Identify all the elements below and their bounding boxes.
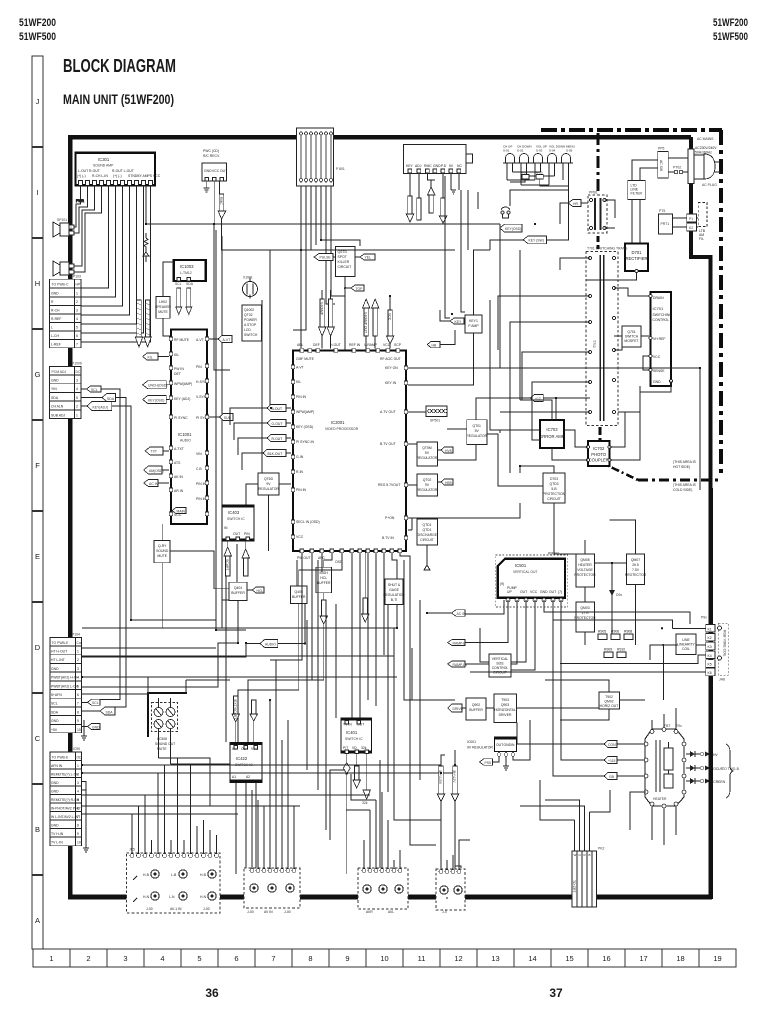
svg-text:GND: GND (92, 725, 100, 729)
svg-text:REMOTE(?) L-CH: REMOTE(?) L-CH (51, 773, 79, 777)
buffer Q902 (466, 698, 486, 720)
svg-text:7: 7 (77, 815, 79, 819)
svg-text:GB: GB (609, 775, 615, 779)
wire bundle left of VP down (214, 224, 270, 742)
flag MAIN near IC1001 bottom (172, 508, 186, 514)
svg-text:RAMP-B: RAMP-B (453, 641, 467, 645)
svg-text:MUTE: MUTE (157, 554, 167, 558)
svg-text:HB9: HB9 (445, 481, 452, 485)
svg-text:PHOTO: PHOTO (591, 452, 607, 457)
svg-text:OUT: OUT (520, 590, 527, 594)
svg-text:SWITCH IC: SWITCH IC (345, 737, 363, 741)
svg-text:Q-RY: Q-RY (158, 544, 167, 548)
wires into PK02 (520, 780, 610, 851)
svg-text:2: 2 (76, 300, 78, 304)
wire remocon bus right (222, 219, 521, 430)
svg-text:IC1001: IC1001 (178, 432, 192, 437)
wires VP bottom pins down (299, 553, 410, 718)
wire arrow stubs to VP top (322, 290, 390, 349)
flag SDA at PCM ADJ (81, 394, 116, 402)
MAIN PCB thick outline (68, 137, 712, 899)
svg-text:4: 4 (160, 954, 164, 963)
flag +115 (568, 757, 645, 764)
svg-text:TOP: TOP (356, 287, 364, 291)
hatched arrows up to IC601 (B+ lines) (437, 766, 458, 802)
svg-text:NC: NC (457, 164, 462, 168)
svg-text:7: 7 (271, 954, 275, 963)
svg-text:CIRCUIT: CIRCUIT (547, 497, 561, 501)
svg-text:5+AFN: 5+AFN (51, 693, 62, 697)
svg-text:BUFFER: BUFFER (469, 708, 483, 712)
svg-text:HR: HR (573, 202, 578, 206)
flag SUB right of IC1001 (209, 414, 233, 421)
svg-text:VCC: VCC (388, 313, 392, 321)
svg-text:2: 2 (77, 658, 79, 662)
svg-text:TO PWB-C: TO PWB-C (52, 283, 69, 287)
svg-text:L: L (51, 326, 53, 330)
svg-text:3: 3 (76, 379, 78, 383)
svg-text:26.5: 26.5 (632, 563, 639, 567)
svg-text:P1: P1 (689, 217, 693, 221)
svg-text:IC2001: IC2001 (331, 420, 345, 425)
svg-text:HCL: HCL (257, 589, 264, 593)
svg-text:MUTE: MUTE (158, 310, 168, 314)
svg-text:9: 9 (77, 719, 79, 723)
svg-text:36: 36 (205, 986, 219, 1000)
svg-text:7.5V: 7.5V (632, 568, 640, 572)
svg-text:LCD: LCD (244, 328, 251, 332)
svg-text:PIN: PIN (196, 365, 202, 369)
transformer T701 (588, 191, 607, 234)
svg-text:QTD3: QTD3 (549, 482, 558, 486)
svg-text:SWITCHING: SWITCHING (653, 313, 673, 317)
svg-text:16: 16 (602, 954, 610, 963)
svg-text:IC401: IC401 (346, 730, 358, 735)
svg-text:KEY: KEY (406, 164, 414, 168)
svg-text:SDA: SDA (107, 397, 115, 401)
wire PRT1 to terminals (673, 218, 687, 227)
grid ruler bottom numbers (49, 954, 721, 963)
svg-text:PP5: PP5 (658, 147, 665, 151)
sound amp IC301 (76, 153, 161, 186)
svg-text:10: 10 (77, 841, 81, 845)
svg-text:3: 3 (123, 954, 127, 963)
IC701 switching control (649, 292, 673, 386)
svg-text:L-N: L-N (169, 895, 175, 899)
svg-text:IC422: IC422 (236, 756, 248, 761)
connector P104 TO PWB-D (50, 633, 82, 733)
svg-text:14: 14 (528, 954, 536, 963)
svg-text:OUT: OUT (233, 532, 240, 536)
extra verticals right of center (412, 600, 420, 780)
svg-text:RMC: RMC (219, 197, 223, 205)
flag RAMP-UP (448, 600, 508, 646)
svg-text:5V: 5V (449, 164, 454, 168)
svg-text:KIL: KIL (296, 380, 301, 384)
svg-text:LINE: LINE (682, 638, 690, 642)
wires FBT left side (630, 708, 676, 845)
svg-text:AC IN: AC IN (149, 482, 159, 486)
svg-text:V-RAMP OUT: V-RAMP OUT (364, 312, 368, 333)
switch IC422 (230, 742, 262, 782)
svg-text:J-00: J-00 (284, 910, 291, 914)
svg-text:GND: GND (204, 169, 212, 173)
posistor PRT701 (659, 209, 673, 234)
wire IR VCC down (213, 181, 215, 224)
svg-text:PRT1: PRT1 (661, 222, 670, 226)
flag HV5 (438, 447, 454, 453)
vertical out dashed outline (496, 555, 568, 607)
svg-text:MAIN: MAIN (177, 509, 186, 513)
svg-text:10: 10 (77, 728, 81, 732)
svg-text:P104: P104 (72, 633, 80, 637)
REMOCON arrow down (218, 181, 226, 219)
flag HR into T701 (568, 200, 588, 207)
fuse PT02 on lower wire (668, 166, 688, 174)
svg-text:SDA: SDA (106, 710, 114, 714)
extra center verticals (297, 560, 380, 868)
svg-text:BUFFER: BUFFER (292, 595, 306, 599)
headphone jack symbol (501, 207, 510, 218)
svg-text:AV-1 IN: AV-1 IN (170, 907, 182, 911)
grid ruler left column (32, 56, 43, 949)
svg-text:Q903: Q903 (501, 703, 509, 707)
svg-text:HV5: HV5 (445, 449, 452, 453)
svg-text:32k: 32k (362, 801, 368, 805)
svg-text:6: 6 (77, 807, 79, 811)
svg-text:AC230V/240V: AC230V/240V (695, 146, 717, 150)
svg-text:OUT: OUT (496, 743, 503, 747)
svg-text:CMF MUTE: CMF MUTE (296, 357, 315, 361)
svg-text:WPW(AMP): WPW(AMP) (174, 382, 192, 386)
svg-text:HEATER: HEATER (653, 797, 667, 801)
wires linearity/connector (470, 600, 706, 700)
svg-text:37: 37 (549, 986, 563, 1000)
svg-text:DISCHARGE: DISCHARGE (417, 533, 438, 537)
svg-text:OUT: OUT (549, 590, 556, 594)
svg-text:YEL: YEL (365, 256, 372, 260)
svg-text:TO TWG-B: TO TWG-B (722, 767, 740, 771)
svg-text:W: W (574, 853, 577, 857)
svg-text:C: C (35, 734, 41, 743)
svg-text:51WF500: 51WF500 (19, 31, 56, 43)
svg-text:K2: K2 (708, 636, 712, 640)
svg-text:11: 11 (418, 954, 426, 963)
bracket TO CRT (722, 744, 740, 798)
protection circuit D703 (543, 473, 566, 503)
svg-text:R/C RECV.: R/C RECV. (203, 154, 220, 158)
svg-text:S-03: S-03 (536, 149, 543, 153)
svg-text:13: 13 (491, 954, 499, 963)
main border right step (solid) (691, 137, 711, 490)
svg-text:B: B (589, 853, 591, 857)
svg-text:IC702: IC702 (593, 446, 605, 451)
svg-text:DRIVER: DRIVER (499, 713, 512, 717)
flag HB9 (438, 479, 454, 485)
svg-text:IC703: IC703 (546, 427, 558, 432)
flag AM(OSD) (144, 466, 169, 474)
svg-text:HT L-INT: HT L-INT (51, 658, 65, 662)
FBT T901 (644, 724, 686, 808)
svg-text:SCART: SCART (225, 559, 229, 570)
svg-text:H-B: H-B (143, 873, 150, 877)
svg-text:GND: GND (433, 164, 441, 168)
svg-text:S-04: S-04 (549, 149, 556, 153)
svg-text:PIN IN: PIN IN (296, 395, 307, 399)
svg-text:PIN: PIN (244, 532, 250, 536)
svg-text:PWBT(AV2) L-CH: PWBT(AV2) L-CH (51, 684, 79, 688)
horizontal driver T903 (494, 694, 517, 722)
svg-text:UP: UP (507, 590, 512, 594)
svg-text:P AMP: P AMP (468, 324, 479, 328)
svg-text:1: 1 (77, 764, 79, 768)
svg-text:AC SW: AC SW (659, 160, 663, 172)
svg-text:QSTD: QSTD (338, 250, 348, 254)
svg-text:R909: R909 (604, 648, 612, 652)
hatched arrows above IC422 (232, 696, 258, 722)
svg-text:BIGH: BIGH (320, 571, 329, 575)
svg-text:KEY (OSD): KEY (OSD) (296, 425, 313, 429)
svg-text:S-01: S-01 (503, 149, 510, 153)
svg-text:REGULATION: REGULATION (383, 593, 405, 597)
svg-text:AC PLUG: AC PLUG (702, 183, 717, 187)
svg-text:+: + (70, 226, 72, 230)
label AC230V/240V 50Hz/60Hz (695, 146, 717, 155)
svg-text:IC001: IC001 (467, 740, 476, 744)
center vertical bus pair (388, 560, 455, 845)
svg-text:D: D (35, 643, 41, 652)
svg-text:Q1002: Q1002 (244, 308, 254, 312)
wire filter to AC SW (632, 160, 658, 180)
svg-text:BUFFER: BUFFER (231, 591, 245, 595)
svg-text:A STOP: A STOP (244, 323, 257, 327)
svg-text:ERROR AMP: ERROR AMP (539, 434, 564, 439)
AC inlet connector (688, 149, 694, 184)
wires jack group1 up-fan (82, 758, 217, 853)
svg-text:PWR: PWR (76, 199, 84, 203)
wires group JK503 up (346, 774, 400, 868)
svg-text:(THIS AREA IS: (THIS AREA IS (673, 483, 697, 487)
discharge circuit QTD1 (417, 519, 438, 545)
svg-text:D9x: D9x (616, 593, 622, 597)
wires photo coupler / error amp (500, 386, 640, 473)
svg-text:QT01: QT01 (472, 424, 481, 428)
ground key connector (451, 190, 456, 194)
protector QM03 (574, 602, 596, 632)
svg-text:PW IN: PW IN (174, 367, 184, 371)
svg-text:1: 1 (76, 292, 78, 296)
svg-text:(+) (-): (+) (-) (113, 174, 122, 178)
svg-text:SCL: SCL (91, 388, 98, 392)
svg-text:R906: R906 (611, 630, 619, 634)
vertical size control circuit (489, 654, 511, 677)
svg-text:P1006: P1006 (72, 362, 82, 366)
buffer Q405 (291, 586, 308, 604)
svg-text:QM07: QM07 (631, 558, 640, 562)
regulator IC601 (494, 737, 516, 756)
svg-text:51WF500: 51WF500 (713, 31, 748, 43)
svg-text:KEY: KEY (455, 320, 463, 324)
svg-text:H-N: H-N (200, 895, 207, 899)
switching transformer T702 (586, 247, 628, 426)
svg-text:T9x: T9x (676, 724, 682, 728)
flag PULSE into spot killer (314, 254, 336, 261)
svg-text:I: I (36, 188, 38, 197)
flag PS5 below IC601 (480, 756, 500, 765)
svg-text:R-02: R-02 (521, 171, 528, 175)
svg-text:VERTICAL OUT: VERTICAL OUT (513, 570, 538, 574)
svg-text:9: 9 (345, 954, 349, 963)
svg-text:Q902: Q902 (472, 703, 480, 707)
svg-text:QM02: QM02 (604, 700, 613, 704)
svg-text:K4: K4 (708, 654, 712, 658)
svg-text:PW OUT: PW OUT (297, 556, 311, 560)
svg-text:A-TXT: A-TXT (174, 447, 184, 451)
spot killer QSTD (336, 246, 356, 276)
svg-text:PI SYNC: PI SYNC (174, 416, 188, 420)
audio processor IC1001 (169, 330, 210, 525)
flag HCL right of Q404 (247, 587, 264, 593)
svg-text:PI SYNC IN: PI SYNC IN (296, 440, 314, 444)
hatched arrow below Q406 (320, 593, 328, 624)
sound-out mute LC508 (148, 693, 186, 751)
wire QTD1 down (424, 545, 430, 570)
svg-text:9V: 9V (425, 483, 430, 487)
wires protectors (585, 540, 636, 645)
svg-text:18: 18 (676, 954, 684, 963)
svg-text:B-OUT: B-OUT (272, 407, 283, 411)
svg-text:A.TV OUT: A.TV OUT (380, 410, 396, 414)
svg-text:A1: A1 (232, 775, 236, 779)
svg-text:SUB ADJ: SUB ADJ (51, 413, 65, 417)
AV jack group JK504 (436, 869, 465, 914)
svg-text:K5: K5 (708, 663, 712, 667)
flag KEY(SW) from keys (490, 190, 569, 250)
wire B+ lines to jacks (441, 750, 461, 871)
wire QT6D (246, 484, 291, 551)
LTD line filter L701 (628, 180, 646, 199)
svg-text:MAIN UNIT (51WF200): MAIN UNIT (51WF200) (63, 91, 174, 107)
svg-text:8: 8 (77, 824, 79, 828)
svg-text:6: 6 (77, 693, 79, 697)
svg-text:CIRCUIT: CIRCUIT (338, 265, 352, 269)
svg-text:5: 5 (76, 396, 78, 400)
svg-text:RF AGC OUT: RF AGC OUT (380, 357, 401, 361)
svg-text:P+ON: P+ON (385, 516, 395, 520)
svg-text:DET: DET (174, 372, 181, 376)
svg-text:4: 4 (76, 387, 78, 391)
key connector arrows down (406, 173, 459, 223)
svg-text:OUT: OUT (220, 169, 227, 173)
svg-text:VIDEO PROCESSOR: VIDEO PROCESSOR (325, 427, 359, 431)
svg-text:R908: R908 (624, 630, 632, 634)
svg-text:L-B: L-B (171, 873, 177, 877)
svg-text:VCC: VCC (212, 169, 220, 173)
svg-text:ABL: ABL (297, 343, 304, 347)
svg-text:G-OUT: G-OUT (272, 422, 283, 426)
svg-text:D701: D701 (631, 250, 642, 255)
svg-text:REMOTE(?) R-CH: REMOTE(?) R-CH (51, 798, 80, 802)
svg-text:A: A (35, 916, 40, 925)
svg-text:QT02: QT02 (423, 478, 432, 482)
svg-text:C.B: C.B (196, 467, 202, 471)
svg-text:SP101: SP101 (57, 218, 67, 222)
svg-text:LH02: LH02 (159, 300, 167, 304)
diode D905 on vertical wire (609, 587, 622, 634)
top notch connector P801 (297, 128, 345, 186)
svg-text:REGULATOR: REGULATOR (417, 456, 438, 460)
wires IC301 pins down long (81, 185, 151, 342)
video processor IC2001 (291, 343, 408, 564)
svg-text:T701 SWITCHING TRANS: T701 SWITCHING TRANS (587, 247, 628, 251)
vertical out IC501 (498, 552, 565, 603)
svg-text:UNCH(OSD): UNCH(OSD) (148, 384, 167, 388)
svg-text:2: 2 (86, 954, 90, 963)
svg-text:AVR: AVR (366, 910, 373, 914)
svg-text:PCM ADJ: PCM ADJ (52, 370, 67, 374)
svg-text:ATS: ATS (174, 461, 181, 465)
svg-text:HOT SIDE): HOT SIDE) (673, 465, 690, 469)
flag CONT (560, 741, 645, 748)
regulator IC601 label (467, 740, 493, 750)
svg-text:(THIS AREA IS: (THIS AREA IS (673, 460, 697, 464)
svg-text:R-CH: R-CH (51, 309, 60, 313)
svg-text:KEY(ADJ): KEY(ADJ) (93, 405, 108, 409)
svg-text:PK2: PK2 (598, 847, 605, 851)
ground below TO PWB-E rows 3-4 (82, 782, 89, 853)
wires QT01 (437, 398, 543, 486)
keypad switches SW801-805 (503, 145, 575, 206)
svg-text:P.D: P.D (441, 164, 447, 168)
flag KEY(OSD) (143, 396, 169, 404)
svg-text:R-OUT: R-OUT (272, 437, 283, 441)
svg-text:L-TM12: L-TM12 (180, 271, 192, 275)
svg-text:50Hz/60Hz: 50Hz/60Hz (695, 151, 712, 155)
error amp IC703 (539, 420, 564, 448)
svg-text:J-0: J-0 (442, 910, 447, 914)
svg-text:KEY ON: KEY ON (385, 366, 398, 370)
wire VP to SP501 (408, 368, 700, 490)
svg-text:HORIZONTAL: HORIZONTAL (494, 708, 516, 712)
hollow arrows below IC1003 (176, 288, 192, 315)
switch IC403 (222, 505, 254, 541)
svg-text:SCL: SCL (92, 701, 99, 705)
svg-text:PULSE: PULSE (320, 256, 332, 260)
svg-text:RAMP-IN: RAMP-IN (453, 663, 468, 667)
svg-text:GND: GND (51, 781, 59, 785)
resistor row R901-R903 (598, 630, 633, 658)
svg-text:HB: HB (432, 343, 437, 347)
svg-text:5: 5 (77, 798, 79, 802)
connector P1006 PCM ADJ (49, 362, 82, 419)
svg-text:R910: R910 (617, 648, 625, 652)
svg-text:D703: D703 (550, 477, 558, 481)
svg-text:ADJ: ADJ (415, 164, 422, 168)
IR receiver PWC(CD) (202, 149, 227, 181)
svg-text:T903: T903 (501, 698, 509, 702)
svg-text:8: 8 (308, 954, 312, 963)
grid ruler bottom row (33, 949, 736, 967)
wires IC422 to jacks (236, 721, 256, 874)
regulator QT01 (466, 420, 487, 445)
svg-text:P/T: P/T (343, 746, 348, 750)
connector PK02 (572, 847, 605, 908)
svg-text:IC701: IC701 (653, 306, 664, 311)
svg-text:B.TV IN: B.TV IN (382, 536, 394, 540)
svg-text:GND: GND (51, 824, 59, 828)
power section dash-dot right border (719, 130, 723, 473)
flag HB near SP501 (427, 330, 455, 348)
